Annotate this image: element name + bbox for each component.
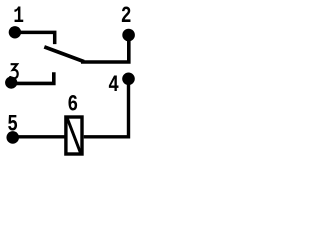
svg-text:6: 6 <box>67 93 78 119</box>
pin label 3 (flat-top three) <box>10 64 18 78</box>
wire node5 to coil <box>13 135 66 138</box>
wire node3 to fixed contact stub (up) <box>11 72 54 83</box>
terminal dot node 1 <box>9 26 21 38</box>
wire blade pivot to node 2 <box>81 35 129 62</box>
switch blade (movable contact) <box>44 47 84 62</box>
terminal dot node 2 <box>122 29 135 42</box>
wire node1 to fixed contact stub (down) <box>15 32 55 44</box>
relay coil body (rectangle) <box>66 117 82 154</box>
terminal dot node 4 <box>122 73 135 86</box>
svg-text:4: 4 <box>108 73 119 99</box>
terminal dot node 3 <box>5 77 17 89</box>
relay coil diagonal <box>67 118 81 154</box>
svg-text:1: 1 <box>13 4 24 30</box>
wire node4 down and left to coil <box>84 79 129 137</box>
terminal dot node 5 <box>6 131 19 144</box>
svg-text:2: 2 <box>121 4 132 30</box>
